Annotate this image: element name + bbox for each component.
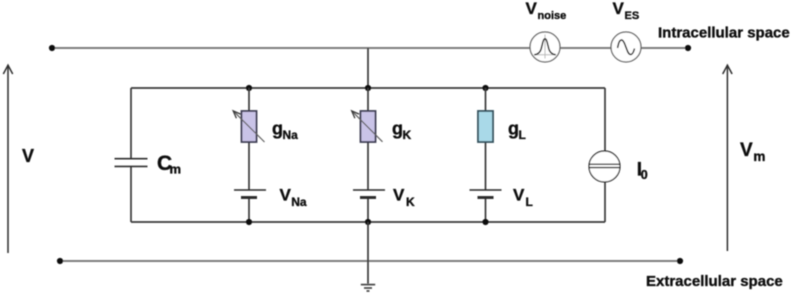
battery V_Na: [234, 190, 266, 198]
label V_m: [740, 140, 765, 164]
svg-text:K: K: [403, 128, 412, 142]
wire inner membrane box: [131, 88, 605, 222]
label I0: [637, 160, 648, 183]
node bottom-left: [57, 258, 63, 264]
svg-text:V: V: [513, 186, 525, 205]
node g_L bottom: [482, 219, 488, 225]
wire g_Na branch: [248, 88, 250, 222]
svg-text:m: m: [753, 149, 765, 164]
svg-text:Na: Na: [283, 128, 299, 142]
label V_ES: [613, 0, 640, 22]
svg-text:g: g: [272, 119, 283, 139]
wire stem top rail to inner box: [367, 48, 369, 88]
svg-text:Na: Na: [291, 195, 307, 209]
arrow on g_Na (variable): [233, 111, 264, 142]
arrow V_m (right): [723, 65, 732, 251]
wire bottom extracellular rail: [60, 260, 680, 262]
svg-text:g: g: [508, 119, 519, 139]
label V_noise: [526, 0, 567, 22]
resistor g_L: [478, 111, 493, 142]
source V_noise: [530, 32, 560, 62]
label V_Na: [280, 186, 307, 210]
svg-text:V: V: [280, 186, 292, 205]
node g_Na bottom: [246, 219, 252, 225]
svg-text:noise: noise: [538, 10, 567, 22]
node g_K top: [365, 85, 371, 91]
svg-text:K: K: [406, 195, 415, 209]
node g_K bottom: [365, 219, 371, 225]
label C_m: [157, 152, 181, 177]
ground: [361, 285, 375, 291]
label V_K: [393, 186, 415, 210]
source V_ES: [611, 32, 641, 62]
svg-text:L: L: [526, 195, 533, 209]
svg-text:Extracellular space: Extracellular space: [646, 273, 783, 290]
svg-text:L: L: [519, 128, 526, 142]
node top-right: [685, 45, 691, 51]
battery V_L: [470, 190, 502, 198]
resistor g_Na: [242, 111, 257, 142]
label g_Na: [272, 119, 298, 143]
label g_K: [392, 119, 412, 143]
node g_L top: [482, 85, 488, 91]
node top-left: [49, 45, 55, 51]
svg-text:ES: ES: [625, 10, 640, 22]
svg-text:V: V: [526, 0, 538, 18]
wire top intracellular rail: [52, 47, 688, 49]
current source I0: [589, 151, 620, 182]
svg-text:0: 0: [641, 168, 648, 182]
wire ground stem: [367, 222, 369, 284]
svg-text:V: V: [22, 146, 34, 166]
label V_L: [513, 186, 533, 210]
resistor g_K: [361, 111, 376, 142]
svg-text:V: V: [613, 0, 625, 18]
svg-text:Intracellular space: Intracellular space: [658, 25, 790, 42]
svg-text:m: m: [170, 162, 182, 177]
svg-text:V: V: [393, 186, 405, 205]
arrow V (left, membrane voltage): [3, 65, 12, 253]
wire g_K branch: [367, 88, 369, 222]
battery V_K: [353, 190, 385, 198]
svg-text:V: V: [740, 140, 753, 161]
arrow on g_K (variable): [352, 111, 383, 142]
node g_Na top: [246, 85, 252, 91]
capacitor C_m: [115, 159, 148, 167]
svg-text:g: g: [392, 119, 403, 139]
label g_L: [508, 119, 526, 143]
wire g_L branch: [485, 88, 487, 222]
node bottom-right: [677, 258, 683, 264]
